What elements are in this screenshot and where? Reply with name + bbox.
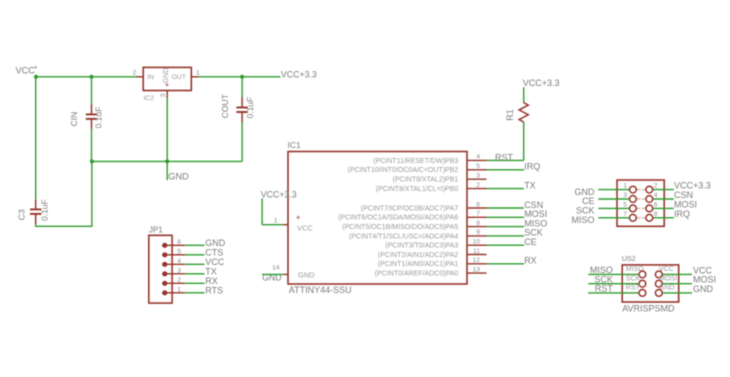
wire VCC rail to regulator IN: [36, 76, 137, 78]
svg-text:VCC: VCC: [16, 65, 36, 75]
svg-text:(PCINT10/INT0/OC0A/C<OUT)PB2: (PCINT10/INT0/OC0A/C<OUT)PB2: [348, 167, 459, 174]
junction CIN top: [90, 75, 94, 79]
svg-text:(PCINT1/AIN0/ADC1)PA1: (PCINT1/AIN0/ADC1)PA1: [378, 261, 458, 268]
svg-text:2: 2: [476, 182, 480, 189]
svg-text:13: 13: [472, 266, 480, 273]
wire to pin 1: [262, 224, 283, 226]
wire SCK (left): [588, 283, 639, 285]
wire GND to pin 14: [262, 273, 283, 275]
svg-text:RST: RST: [595, 284, 614, 294]
svg-text:VCC+3.3: VCC+3.3: [523, 78, 560, 88]
svg-text:10: 10: [472, 239, 480, 246]
svg-text:TX: TX: [205, 267, 217, 277]
svg-text:RST: RST: [495, 153, 514, 163]
svg-text:7: 7: [623, 211, 627, 218]
svg-text:RX: RX: [524, 256, 537, 266]
resistor R1: [505, 103, 529, 123]
junction VCC/C3: [34, 75, 38, 79]
wire GND rail: [92, 160, 242, 162]
svg-text:ATTINY44-SSU: ATTINY44-SSU: [289, 285, 352, 295]
svg-text:CE: CE: [524, 237, 537, 247]
svg-text:US2: US2: [622, 254, 636, 263]
pin 7 pad: [623, 211, 640, 221]
wire up to GND rail: [91, 161, 93, 227]
pin 4 PB3: [373, 154, 486, 165]
svg-text:1: 1: [196, 70, 200, 77]
wire R1 to RST net: [523, 122, 525, 160]
wire bottom rail: [35, 225, 92, 227]
pin 8 PA5: [342, 220, 486, 231]
connector US2 body: [622, 254, 679, 313]
svg-text:(PCINT2/AIN1/ADC2)PA2: (PCINT2/AIN1/ADC2)PA2: [378, 252, 458, 259]
svg-text:VCC+3.3: VCC+3.3: [281, 70, 317, 80]
pin 4 JP1 VCC: [162, 258, 185, 267]
connector 2x4 header body: [617, 180, 664, 226]
wire JP1 TX: [185, 273, 204, 275]
svg-text:7: 7: [476, 211, 480, 218]
svg-text:11: 11: [473, 248, 480, 255]
svg-text:(PCINT3/T0/ADC3)PA3: (PCINT3/T0/ADC3)PA3: [385, 243, 458, 250]
pin 6 JP1 GND: [162, 239, 185, 248]
svg-text:4: 4: [654, 192, 658, 199]
pin 3 pad: [623, 192, 640, 202]
wire RX net: [487, 263, 525, 265]
wire JP1 GND: [185, 244, 204, 246]
wire RST net: [487, 159, 524, 161]
wire GND (right): [662, 292, 693, 294]
svg-text:8: 8: [476, 220, 480, 227]
wire MISO (left): [588, 273, 639, 275]
pin 6 pad: [642, 202, 658, 212]
pin 2 IN: [133, 70, 144, 77]
wire CE (left): [598, 198, 630, 200]
svg-text:0.1uF: 0.1uF: [245, 97, 255, 119]
wire down to C3: [35, 76, 37, 199]
pad right VCC: [655, 266, 673, 278]
pad left RST: [626, 285, 646, 297]
wire JP1 VCC: [185, 263, 204, 265]
pin 11 PA2: [378, 248, 487, 259]
svg-text:VCC: VCC: [297, 223, 313, 232]
pin 2 pad: [642, 183, 658, 193]
supply VCC: [16, 65, 38, 76]
wire COUT bottom: [241, 122, 243, 161]
wire VCC+3.3 (right): [652, 189, 674, 191]
wire regulator GND down: [166, 98, 168, 162]
svg-text:AVRISPSMD: AVRISPSMD: [622, 303, 675, 313]
svg-text:5: 5: [623, 202, 627, 209]
pin 2 JP1 RX: [162, 277, 185, 286]
svg-text:6: 6: [177, 239, 181, 246]
wire CSN net: [487, 207, 525, 209]
svg-text:8: 8: [654, 211, 658, 218]
wire COUT top: [241, 77, 243, 98]
wire CSN (right): [652, 198, 674, 200]
pin 5 pad: [623, 202, 640, 212]
pin 3 GND: [160, 91, 167, 98]
ground GND label: [167, 161, 189, 181]
wire MOSI net: [487, 216, 525, 218]
svg-text:3: 3: [623, 192, 627, 199]
junction GND rail regulator: [165, 159, 169, 163]
svg-text:1: 1: [623, 183, 627, 190]
svg-text:MISO: MISO: [571, 215, 594, 225]
svg-text:9: 9: [476, 229, 480, 236]
wire MOSI (right): [662, 283, 693, 285]
svg-text:12: 12: [472, 257, 480, 264]
wire IRQ net: [487, 169, 525, 171]
svg-text:IC2: IC2: [144, 95, 155, 102]
capacitor COUT: [220, 94, 255, 122]
wire CE net: [487, 244, 525, 246]
connector JP1 body: [149, 225, 172, 303]
svg-text:COUT: COUT: [220, 94, 230, 118]
pad left SCK: [626, 275, 646, 287]
pin 8 pad: [642, 211, 658, 221]
svg-text:+: +: [165, 80, 170, 89]
wire MISO (left): [598, 217, 630, 219]
wire JP1 CTS: [185, 254, 204, 256]
svg-text:4: 4: [476, 154, 480, 161]
wire CIN top lead: [91, 77, 93, 105]
wire CIN bottom lead: [91, 129, 93, 162]
junction GND rail left: [90, 159, 94, 163]
svg-text:GND: GND: [298, 270, 315, 279]
svg-text:+: +: [296, 213, 301, 222]
capacitor CIN: [69, 104, 104, 128]
svg-text:VCC+3.3: VCC+3.3: [261, 189, 297, 199]
pin 3 PB1: [393, 173, 487, 184]
svg-text:(PCINT0/AREF/ADC0)PA0: (PCINT0/AREF/ADC0)PA0: [375, 271, 459, 278]
svg-text:(PCINT11/RESET/DW)PB3: (PCINT11/RESET/DW)PB3: [373, 158, 458, 165]
svg-text:OUT: OUT: [172, 74, 186, 81]
pin 1 VCC: [274, 218, 288, 225]
pad right MOSI: [655, 275, 677, 287]
pin 5 JP1 CTS: [162, 249, 185, 258]
svg-text:CTS: CTS: [205, 248, 223, 258]
junction COUT top: [240, 75, 244, 79]
svg-text:+: +: [34, 65, 37, 71]
pin 12 PA1: [378, 257, 487, 268]
pin 14 GND: [272, 265, 288, 275]
svg-text:(PCINT9/XTAL2)PB1: (PCINT9/XTAL2)PB1: [393, 177, 459, 184]
svg-text:IRQ: IRQ: [674, 209, 690, 219]
svg-text:CIN: CIN: [69, 112, 79, 127]
svg-text:3: 3: [177, 268, 181, 275]
svg-text:2: 2: [654, 183, 658, 190]
wire GND (left): [598, 189, 630, 191]
wire VCC+3.3 drop: [261, 198, 263, 224]
svg-text:(PCINT4/T1/SCL/USC</ADC4)PA4: (PCINT4/T1/SCL/USC</ADC4)PA4: [349, 233, 458, 240]
svg-text:1: 1: [177, 287, 181, 294]
pin 3 JP1 TX: [162, 268, 185, 277]
capacitor C3: [17, 199, 50, 224]
svg-text:5: 5: [476, 163, 480, 170]
svg-text:(PCINT6/OC1A/SDA/MOSI/ADC6)PA6: (PCINT6/OC1A/SDA/MOSI/ADC6)PA6: [338, 215, 458, 222]
svg-text:GND: GND: [693, 284, 714, 294]
wire C3 to bottom rail: [35, 224, 37, 226]
svg-text:RX: RX: [205, 276, 218, 286]
pin 1 pad: [623, 183, 640, 193]
wire MOSI (right): [652, 207, 674, 209]
svg-text:TX: TX: [524, 180, 536, 190]
svg-text:3: 3: [476, 173, 480, 180]
svg-text:0.1uF: 0.1uF: [94, 107, 104, 129]
wire RST (left): [588, 292, 639, 294]
wire MISO net: [487, 226, 525, 228]
pin 13 PA0: [375, 266, 487, 277]
pin 4 pad: [642, 192, 658, 202]
pin 7 PA6: [338, 211, 486, 222]
pin 6 PA7: [361, 201, 487, 212]
svg-text:C3: C3: [17, 209, 27, 220]
wire SCK net: [487, 235, 525, 237]
svg-text:5: 5: [177, 249, 181, 256]
svg-text:2: 2: [177, 277, 181, 284]
wire regulator OUT to VCC+3.3: [199, 76, 281, 78]
svg-text:GND: GND: [205, 238, 226, 248]
svg-text:2: 2: [133, 70, 137, 77]
svg-text:(PCINT8/XTAL1/CL<I)PB0: (PCINT8/XTAL1/CL<I)PB0: [376, 186, 459, 193]
wire JP1 RTS: [185, 292, 204, 294]
svg-text:14: 14: [272, 265, 280, 272]
pin 5 PB2: [348, 163, 487, 174]
svg-text:IC1: IC1: [288, 140, 302, 150]
svg-text:GND: GND: [168, 172, 189, 182]
pin 1 OUT: [191, 70, 200, 77]
wire VCC+3.3 to R1: [523, 87, 525, 103]
svg-text:6: 6: [654, 202, 658, 209]
wire TX net: [487, 188, 525, 190]
pin 1 JP1 RTS: [162, 287, 185, 296]
MCU IC1 body: [288, 140, 468, 295]
svg-text:R1: R1: [505, 109, 515, 121]
pin 10 PA3: [385, 239, 486, 250]
svg-text:3: 3: [160, 93, 167, 97]
svg-text:6: 6: [476, 201, 480, 208]
wire JP1 RX: [185, 282, 204, 284]
wire SCK (left): [598, 207, 630, 209]
svg-text:0.1uF: 0.1uF: [40, 199, 50, 221]
svg-text:RTS: RTS: [205, 286, 223, 296]
svg-text:4: 4: [177, 258, 181, 265]
svg-text:VCC: VCC: [205, 257, 225, 267]
svg-text:1: 1: [274, 218, 278, 225]
svg-text:RST: RST: [626, 285, 641, 292]
svg-text:IN: IN: [147, 74, 154, 81]
voltage regulator IC2: [143, 67, 191, 102]
svg-text:JP1: JP1: [149, 225, 163, 234]
wire IRQ (right): [652, 217, 674, 219]
pin 2 PB0: [376, 182, 487, 193]
svg-text:SCK: SCK: [626, 275, 641, 282]
svg-text:(PCINT5/OC1B/MISO/DO/ADC5)PA5: (PCINT5/OC1B/MISO/DO/ADC5)PA5: [342, 224, 458, 231]
pad left MISO: [626, 266, 646, 278]
pad right GND: [655, 285, 674, 297]
pin 9 PA4: [349, 229, 487, 240]
svg-text:(PCINT7/ICP/OC0B/ADC7)PA7: (PCINT7/ICP/OC0B/ADC7)PA7: [361, 205, 459, 212]
svg-text:IRQ: IRQ: [524, 162, 540, 172]
wire VCC (right): [662, 273, 693, 275]
